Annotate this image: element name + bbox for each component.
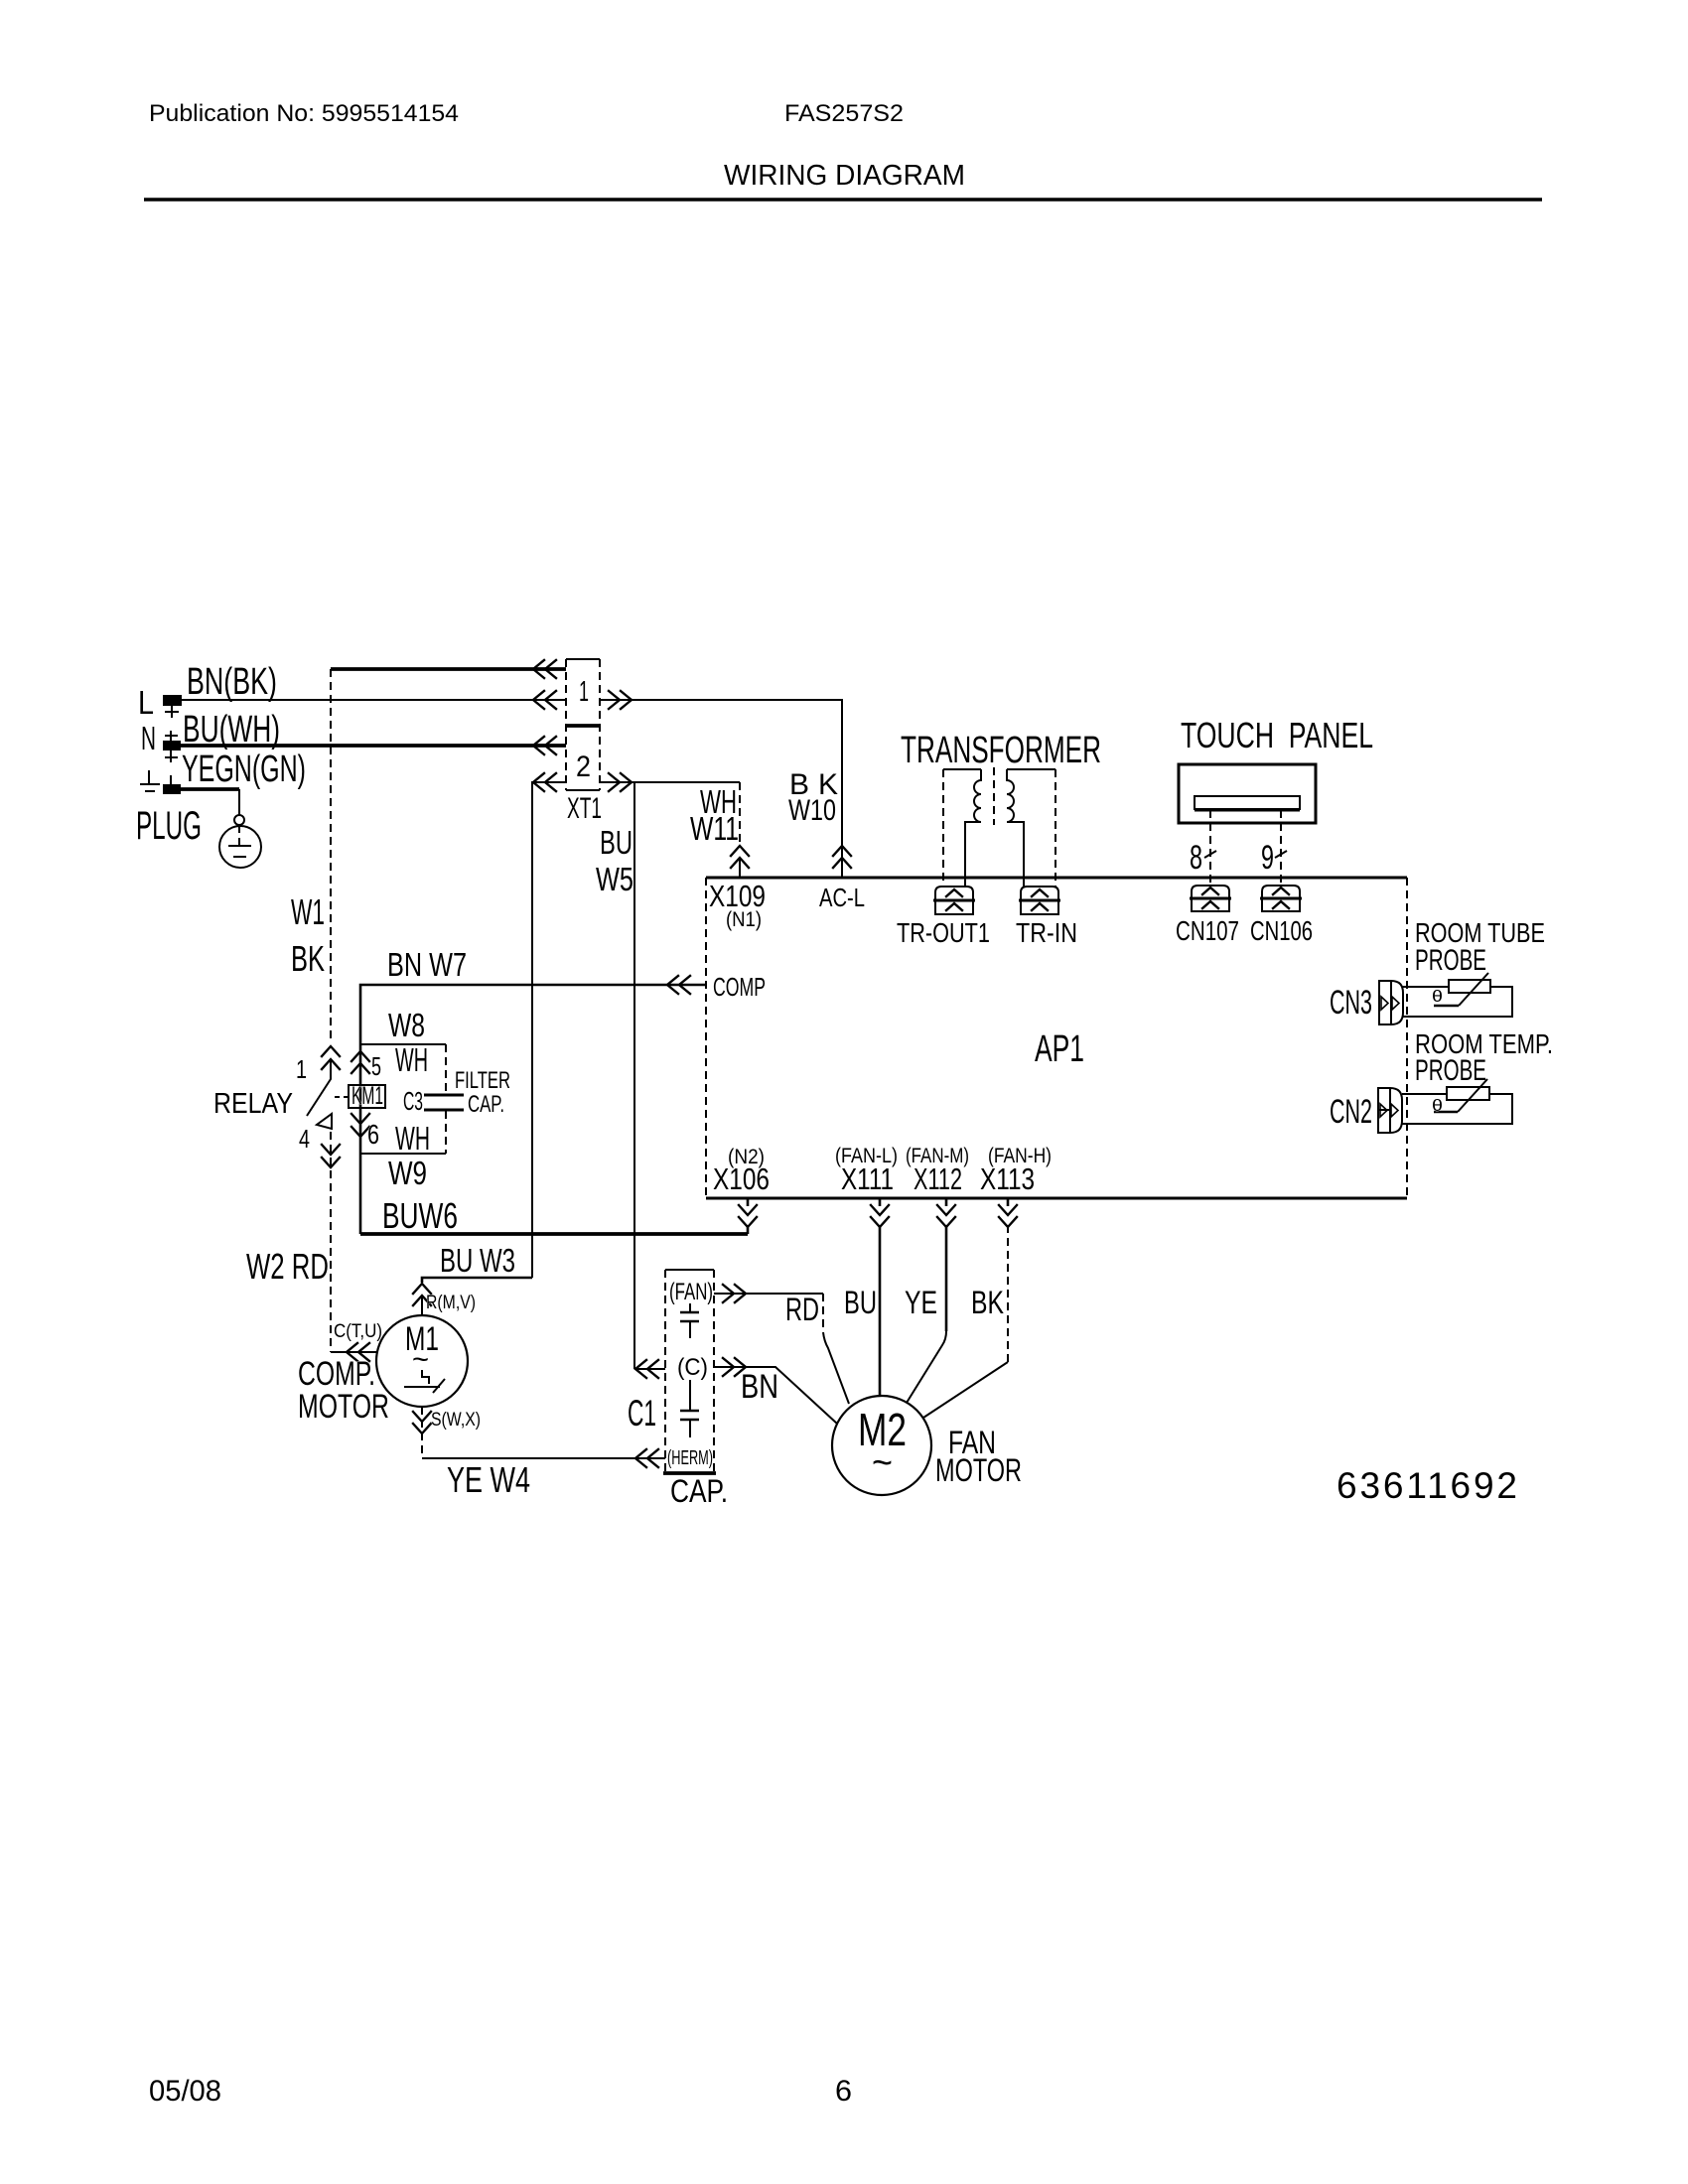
svg-text:YE: YE (905, 1285, 937, 1320)
svg-text:FAS257S2: FAS257S2 (784, 100, 904, 127)
transformer top edges (943, 768, 1055, 770)
wire BUW6 neutral bus (360, 1232, 748, 1236)
wire W2 RD dashed relay to comp motor (330, 1132, 332, 1352)
comp motor M1 circle (376, 1315, 468, 1407)
svg-text:WH: WH (395, 1120, 430, 1157)
svg-text:YEGN(GN): YEGN(GN) (182, 749, 306, 790)
svg-text:N: N (141, 720, 156, 756)
svg-text:X113: X113 (980, 1161, 1035, 1196)
wire BU W5: XT1-2 down to C1 (C) (633, 782, 635, 1369)
svg-text:1: 1 (579, 676, 589, 708)
svg-text:COMP: COMP (713, 972, 766, 1002)
svg-text:~: ~ (412, 1343, 429, 1376)
title rule (144, 198, 1542, 202)
svg-text:TOUCH PANEL: TOUCH PANEL (1181, 715, 1373, 755)
earth electrode circle (219, 826, 261, 868)
wire W1 BK dashed from BN(BK) to relay pin1 (330, 669, 332, 1041)
arrows into XT1 left (533, 660, 556, 678)
arrows out of XT1 right pin2 (609, 773, 632, 791)
M1 overload protector symbol (404, 1370, 445, 1393)
svg-text:CAP.: CAP. (670, 1473, 728, 1509)
wire BU W3 horizontal to M1 (422, 1278, 532, 1283)
filter cap C3 leads dashed (445, 1044, 447, 1154)
svg-text:05/08: 05/08 (149, 2075, 221, 2108)
svg-text:Publication No: 5995514154: Publication No: 5995514154 (149, 100, 459, 127)
svg-text:4: 4 (299, 1124, 310, 1154)
svg-text:~: ~ (872, 1442, 893, 1484)
svg-text:MOTOR: MOTOR (298, 1388, 389, 1426)
svg-text:R(M,V): R(M,V) (426, 1293, 476, 1313)
svg-text:BK: BK (971, 1285, 1004, 1320)
touch panel leads dashed (1210, 810, 1281, 884)
svg-text:BK: BK (291, 938, 325, 979)
wire ground to earth electrode (181, 787, 239, 791)
YE W4 arrows (635, 1449, 658, 1467)
svg-text:PROBE: PROBE (1415, 1054, 1486, 1087)
capacitor C1 box dashed (665, 1270, 714, 1473)
svg-text:C3: C3 (403, 1086, 423, 1116)
connector CN107 (1190, 886, 1231, 911)
S(W,X) arrows (413, 1412, 431, 1433)
svg-text:63611692: 63611692 (1336, 1465, 1517, 1506)
wire S(W,X) dashed below M1 (421, 1407, 423, 1458)
svg-text:AC-L: AC-L (819, 883, 865, 912)
KM1 coil feed vertical (359, 1044, 362, 1234)
connector CN2 (1378, 1088, 1402, 1133)
ground symbol at plug (140, 770, 160, 791)
wire BU W3 vertical from XT1-2 (532, 782, 566, 1278)
capacitor C3 plates (424, 1095, 464, 1110)
svg-text:AP1: AP1 (1035, 1028, 1084, 1070)
svg-text:TRANSFORMER: TRANSFORMER (901, 730, 1101, 771)
relay contact pin4 arrows (322, 1145, 340, 1167)
svg-text:BU: BU (600, 824, 633, 861)
svg-text:BU W3: BU W3 (440, 1242, 515, 1279)
room temp probe thermistor (1402, 1079, 1512, 1124)
wire W9 WH return (360, 1153, 446, 1155)
svg-text:W8: W8 (388, 1007, 425, 1043)
svg-text:TR-IN: TR-IN (1016, 917, 1077, 948)
svg-text:(FAN): (FAN) (669, 1279, 713, 1305)
svg-text:BU: BU (844, 1285, 877, 1320)
connector CN106 (1260, 886, 1302, 911)
svg-text:CN106: CN106 (1250, 915, 1313, 946)
svg-text:W1: W1 (291, 891, 325, 932)
touch panel inner bar (1195, 796, 1300, 809)
svg-text:(C): (C) (677, 1354, 708, 1381)
relay contact pin1 arrows (322, 1046, 340, 1069)
wire W8 WH to filter cap (360, 1043, 446, 1045)
terminal X106 stub and arrows (747, 1198, 750, 1234)
fan motor M2 circle (832, 1396, 931, 1495)
svg-text:X112: X112 (914, 1161, 962, 1196)
earth electrode circle small (234, 815, 244, 825)
wire BN(BK) heavy to XT1-1 (331, 667, 566, 671)
room tube probe thermistor (1402, 973, 1512, 1017)
connector CN3 (1379, 981, 1403, 1024)
relay coil KM1 box (349, 1085, 385, 1108)
M1 R(M,V) arrows (413, 1284, 431, 1305)
terminal X113 stub arrows and wire BK to M2 (1007, 1198, 1010, 1206)
svg-text:WIRING DIAGRAM: WIRING DIAGRAM (724, 160, 965, 192)
svg-text:C(T,U): C(T,U) (334, 1321, 382, 1342)
svg-text:PLUG: PLUG (136, 804, 202, 848)
relay contact seat triangle (317, 1114, 332, 1129)
transformer outline dashed (943, 767, 1055, 887)
svg-text:X111: X111 (841, 1161, 894, 1196)
svg-text:θ: θ (1432, 987, 1443, 1006)
svg-text:1: 1 (296, 1054, 307, 1084)
svg-text:9: 9 (1261, 839, 1274, 877)
svg-text:W10: W10 (788, 794, 836, 827)
svg-text:TR-OUT1: TR-OUT1 (897, 917, 990, 948)
svg-text:6: 6 (835, 2075, 852, 2108)
wire BU W5 into C1 (C) (634, 1368, 665, 1370)
svg-text:L: L (138, 684, 154, 721)
svg-text:5: 5 (371, 1051, 381, 1081)
svg-text:YE W4: YE W4 (447, 1459, 530, 1500)
svg-text:RELAY: RELAY (213, 1088, 293, 1120)
svg-text:RD: RD (785, 1292, 819, 1327)
dashed link contact to KM1 (335, 1096, 348, 1098)
svg-text:8: 8 (1190, 839, 1202, 877)
wire BN from C1 (C) to M2 (714, 1367, 837, 1424)
touch panel outer box (1179, 764, 1316, 823)
svg-text:FILTER: FILTER (455, 1067, 510, 1094)
svg-text:CN2: CN2 (1330, 1093, 1372, 1131)
relay KM1 contact arm (307, 1059, 331, 1116)
terminal GND (plug pin) (163, 784, 181, 794)
connector TR-IN (1019, 887, 1060, 914)
svg-text:CN3: CN3 (1330, 984, 1372, 1022)
connector TR-OUT1 (933, 887, 975, 914)
terminal block XT1 (566, 659, 600, 790)
KM1 pin6 arrows (352, 1114, 369, 1137)
svg-text:W9: W9 (388, 1155, 427, 1191)
svg-text:(N1): (N1) (726, 908, 762, 931)
transformer secondary winding (1007, 769, 1024, 887)
KM1 pin5 arrows (352, 1051, 369, 1073)
svg-text:C1: C1 (628, 1393, 656, 1433)
transformer primary winding (965, 769, 981, 887)
svg-text:S(W,X): S(W,X) (431, 1410, 481, 1431)
svg-text:(HERM): (HERM) (667, 1447, 713, 1469)
wire BU(WH) heavy to XT1-2 (180, 744, 566, 748)
AP1 control board box (706, 878, 1407, 1198)
svg-text:MOTOR: MOTOR (935, 1452, 1022, 1488)
svg-text:BN(BK): BN(BK) (187, 661, 277, 703)
C(T,U) arrows (347, 1343, 369, 1361)
svg-text:θ: θ (1432, 1096, 1443, 1115)
C1 capacitor plates lower (689, 1380, 691, 1437)
svg-text:W2 RD: W2 RD (246, 1246, 329, 1287)
terminal X112 stub arrows and wire YE to M2 (945, 1198, 948, 1331)
svg-text:KM1: KM1 (352, 1082, 383, 1110)
wire W10 BK: XT1-1 to AC-L (601, 700, 842, 878)
svg-text:W11: W11 (690, 810, 739, 847)
wire L to XT1-1 (182, 699, 566, 701)
svg-text:PROBE: PROBE (1415, 944, 1486, 977)
svg-text:CAP.: CAP. (468, 1091, 504, 1118)
svg-text:XT1: XT1 (567, 792, 602, 825)
svg-text:WH: WH (395, 1041, 428, 1078)
svg-text:6: 6 (367, 1119, 379, 1150)
wire C(T,U) from relay to M1 (331, 1351, 376, 1353)
wire RD from C1 FAN (714, 1293, 823, 1295)
terminal N (plug pin) (163, 741, 181, 751)
svg-text:BN: BN (741, 1368, 778, 1406)
svg-text:W5: W5 (596, 861, 633, 897)
svg-text:BN W7: BN W7 (387, 946, 467, 983)
wire W11 WH: XT1-2 to X109 (601, 781, 740, 783)
wire BN W7: AP1 COMP to relay coil top (360, 985, 706, 1044)
arrows out of XT1 right pin1 (609, 691, 632, 709)
svg-text:CN107: CN107 (1176, 915, 1239, 946)
terminal X111 stub arrows and wire BU to M2 (879, 1198, 882, 1396)
terminal L (plug pin) (163, 695, 182, 706)
C1 capacitor plates upper (689, 1303, 691, 1338)
wire YE W4 to C1 HERM (422, 1457, 665, 1459)
svg-text:2: 2 (576, 751, 591, 783)
svg-text:BUW6: BUW6 (382, 1195, 458, 1236)
svg-text:X106: X106 (713, 1161, 770, 1196)
arrows on COMP wire (667, 976, 690, 994)
